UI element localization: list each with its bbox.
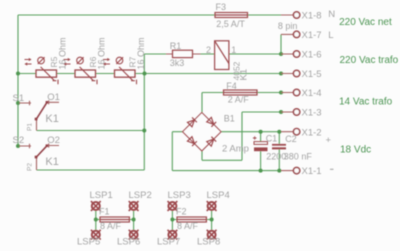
- svg-text:S2: S2: [13, 135, 25, 146]
- svg-text:LSP8: LSP8: [197, 237, 220, 248]
- svg-text:220 Vac net: 220 Vac net: [339, 17, 392, 28]
- svg-text:F1: F1: [99, 207, 110, 217]
- svg-text:X1-3: X1-3: [302, 108, 322, 119]
- svg-text:16 Ohm: 16 Ohm: [136, 37, 146, 69]
- svg-text:O2: O2: [47, 135, 60, 146]
- svg-text:LSP4: LSP4: [207, 190, 230, 201]
- svg-text:LSP1: LSP1: [90, 190, 113, 201]
- svg-text:C1: C1: [266, 134, 278, 144]
- svg-text:380 nF: 380 nF: [284, 152, 313, 162]
- svg-text:F4: F4: [226, 81, 237, 91]
- svg-text:+: +: [326, 135, 332, 146]
- svg-text:K1: K1: [45, 156, 58, 168]
- svg-text:1: 1: [231, 45, 236, 55]
- svg-text:N: N: [328, 9, 335, 20]
- svg-text:P1: P1: [27, 123, 34, 131]
- svg-text:8 A/F: 8 A/F: [177, 221, 199, 231]
- svg-text:X1-4: X1-4: [302, 88, 322, 99]
- svg-text:2,5 A/T: 2,5 A/T: [216, 19, 245, 29]
- svg-text:S1: S1: [13, 93, 25, 104]
- svg-text:8 A/F: 8 A/F: [100, 221, 122, 231]
- svg-text:2: 2: [206, 45, 211, 55]
- svg-text:F3: F3: [216, 2, 227, 12]
- svg-text:K1: K1: [239, 69, 250, 81]
- svg-text:18 Vdc: 18 Vdc: [340, 144, 371, 155]
- svg-text:16 Ohm: 16 Ohm: [97, 37, 107, 69]
- svg-text:X1-6: X1-6: [302, 50, 322, 61]
- svg-text:R1: R1: [170, 41, 182, 51]
- svg-text:2 A/F: 2 A/F: [228, 95, 250, 105]
- svg-text:X1-5: X1-5: [302, 69, 322, 80]
- svg-text:16 Ohm: 16 Ohm: [58, 37, 68, 69]
- svg-text:LSP5: LSP5: [77, 237, 100, 248]
- svg-text:8 pin: 8 pin: [278, 21, 298, 31]
- svg-text:L: L: [328, 30, 333, 41]
- svg-text:C2: C2: [285, 134, 297, 144]
- svg-text:2 Amp: 2 Amp: [222, 144, 249, 155]
- svg-text:3k3: 3k3: [170, 58, 185, 68]
- svg-text:LSP7: LSP7: [157, 237, 180, 248]
- svg-text:LSP6: LSP6: [117, 237, 140, 248]
- svg-text:X1-7: X1-7: [302, 30, 322, 41]
- svg-text:LSP2: LSP2: [129, 190, 152, 201]
- svg-text:X1-2: X1-2: [302, 127, 322, 138]
- svg-text:B1: B1: [224, 113, 235, 123]
- svg-text:LSP3: LSP3: [168, 190, 191, 201]
- svg-text:P2: P2: [27, 163, 34, 171]
- svg-text:F2: F2: [176, 207, 187, 217]
- svg-text:K1: K1: [45, 113, 58, 125]
- svg-text:X1-1: X1-1: [302, 166, 322, 177]
- svg-text:O1: O1: [47, 92, 60, 103]
- svg-text:14 Vac trafo: 14 Vac trafo: [339, 96, 393, 107]
- svg-text:X1-8: X1-8: [302, 11, 322, 22]
- svg-text:220 Vac trafo: 220 Vac trafo: [340, 55, 399, 66]
